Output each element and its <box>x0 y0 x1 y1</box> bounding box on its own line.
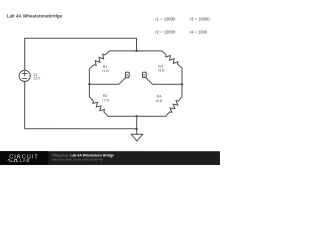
svg-text:r4 = 1000: r4 = 1000 <box>190 30 208 35</box>
svg-text:B: B <box>143 73 145 77</box>
svg-text:r3 Ω: r3 Ω <box>158 69 165 73</box>
svg-text:R4: R4 <box>157 95 161 99</box>
svg-text:r1 = 10000: r1 = 10000 <box>155 17 176 22</box>
svg-text:LAB: LAB <box>20 158 30 163</box>
svg-text:r3 = 10000: r3 = 10000 <box>190 17 211 22</box>
svg-text:r4 Ω: r4 Ω <box>156 99 163 103</box>
svg-text:12 V: 12 V <box>33 76 41 80</box>
svg-text:r2 Ω: r2 Ω <box>102 98 109 102</box>
svg-text:r1 Ω: r1 Ω <box>102 69 109 73</box>
svg-text:Lab 4A Wheatstonebridge: Lab 4A Wheatstonebridge <box>7 13 63 18</box>
svg-text:http://circuitlab.com/c/pt542p: http://circuitlab.com/c/pt542pv/lab-4a <box>52 158 103 162</box>
svg-text:r2 = 10000: r2 = 10000 <box>155 30 176 35</box>
